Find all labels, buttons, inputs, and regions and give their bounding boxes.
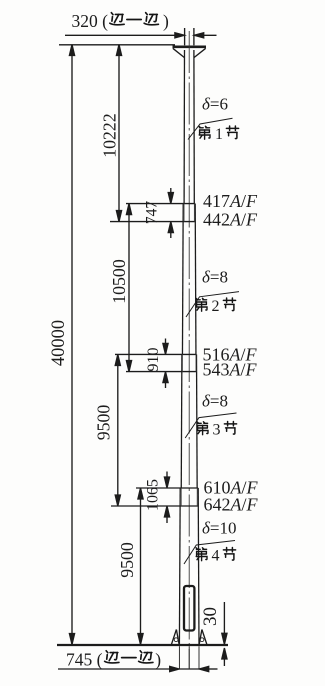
dim 9500 lower vertical line xyxy=(140,489,142,645)
section label 1 xyxy=(199,126,210,139)
svg-text:910: 910 xyxy=(145,348,162,372)
svg-text:δ=8: δ=8 xyxy=(202,268,228,287)
joint 2 lower line xyxy=(126,371,197,373)
joint 2 hidden overlap edges xyxy=(181,354,183,371)
joint 3 hidden overlap edges xyxy=(180,488,182,506)
dim 9500 upper vertical line xyxy=(117,355,119,506)
joint 3 upper line xyxy=(136,487,198,489)
joint 1 lower line xyxy=(110,221,195,223)
svg-text:2: 2 xyxy=(212,298,220,315)
dim 910 arrows xyxy=(165,339,167,347)
joint 3 lower line xyxy=(111,505,198,507)
dim 10500 vertical line xyxy=(128,204,130,371)
flange-top extension line xyxy=(59,44,175,46)
access door xyxy=(184,586,194,631)
right base gusset xyxy=(202,630,207,645)
svg-text:40000: 40000 xyxy=(49,320,69,366)
svg-text:4: 4 xyxy=(212,548,220,565)
base extension lines below plate xyxy=(178,646,180,669)
flange underside slants xyxy=(173,48,185,57)
svg-text:10500: 10500 xyxy=(109,259,129,304)
pole section 3 outline xyxy=(180,354,183,488)
svg-text:δ=8: δ=8 xyxy=(202,392,228,411)
svg-text:): ) xyxy=(163,11,169,31)
base plate line xyxy=(57,644,228,646)
dim 1065 arrows xyxy=(166,472,168,481)
section 2 label leader xyxy=(186,292,239,317)
joint 1 hidden overlap edges xyxy=(183,204,185,222)
dim 10222 vertical line xyxy=(118,45,120,221)
joint 2 upper line xyxy=(115,353,197,355)
section 1 label leader xyxy=(188,118,233,139)
dim 30 vertical line xyxy=(223,602,225,636)
joint 1 upper line xyxy=(126,203,195,205)
dim line 745 bottom xyxy=(58,668,171,670)
svg-text:745 (: 745 ( xyxy=(66,649,103,669)
left base gusset xyxy=(171,630,176,645)
pole section 4 outline xyxy=(178,488,181,645)
svg-text:747: 747 xyxy=(144,201,161,225)
svg-text:417A/F: 417A/F xyxy=(203,191,258,211)
svg-text:9500: 9500 xyxy=(94,405,114,441)
svg-text:320 (: 320 ( xyxy=(72,11,109,31)
svg-text:9500: 9500 xyxy=(117,542,137,578)
svg-text:30: 30 xyxy=(200,607,221,626)
extension lines above flange xyxy=(184,28,186,45)
pole centre axis line (dash-dot) xyxy=(188,31,190,668)
dim 747 arrows xyxy=(170,188,172,196)
svg-text:1: 1 xyxy=(215,126,223,143)
label 320 (side-to-side) xyxy=(72,11,109,31)
section label 3 xyxy=(197,422,208,435)
pole section 2 outline xyxy=(181,204,184,355)
svg-text:): ) xyxy=(155,649,161,669)
svg-text:10222: 10222 xyxy=(99,113,119,157)
pole section 1 outline xyxy=(183,50,185,204)
section 4 label leader xyxy=(184,541,235,565)
pole top flange plate xyxy=(173,45,207,48)
section 3 label leader xyxy=(185,413,236,438)
dim 40000 vertical line xyxy=(71,45,73,644)
section label 2 xyxy=(196,298,207,311)
svg-text:642A/F: 642A/F xyxy=(204,495,259,515)
svg-text:543A/F: 543A/F xyxy=(203,360,258,380)
svg-text:δ=10: δ=10 xyxy=(202,519,237,538)
section label 4 xyxy=(196,548,207,561)
svg-text:δ=6: δ=6 xyxy=(202,95,228,114)
dim line 320 with inward arrows xyxy=(65,34,184,36)
svg-text:442A/F: 442A/F xyxy=(203,210,258,230)
svg-text:1065: 1065 xyxy=(145,479,162,511)
svg-text:3: 3 xyxy=(213,422,221,439)
